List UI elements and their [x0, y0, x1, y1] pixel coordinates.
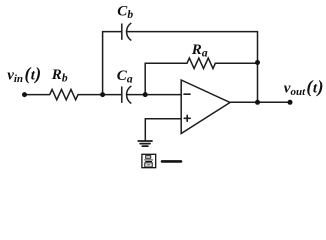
svg-text:vin(t): vin(t) — [7, 63, 41, 85]
